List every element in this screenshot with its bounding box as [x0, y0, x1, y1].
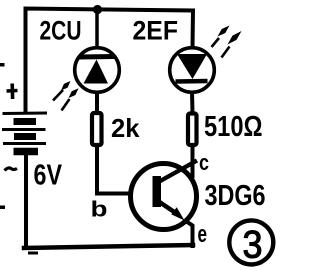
svg-text:2k: 2k: [111, 113, 140, 143]
svg-text:c: c: [199, 150, 209, 175]
svg-text:510Ω: 510Ω: [204, 111, 263, 143]
svg-text:3: 3: [243, 224, 263, 267]
svg-text:2EF: 2EF: [133, 16, 179, 46]
svg-text:b: b: [91, 197, 108, 222]
svg-text:e: e: [198, 221, 208, 248]
svg-text:6V: 6V: [34, 160, 63, 192]
svg-text:2CU: 2CU: [40, 16, 82, 46]
svg-text:3DG6: 3DG6: [205, 180, 266, 212]
